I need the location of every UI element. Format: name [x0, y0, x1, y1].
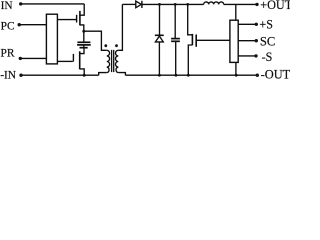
capacitor C2 plate 2: [171, 40, 180, 42]
wire B2 bottom stub: [235, 62, 237, 75]
transformer T1 core line 1: [111, 50, 113, 72]
node Q1b source junction: [83, 74, 86, 77]
capacitor C1 plate 3: [80, 47, 88, 49]
node -IN pin dot: [19, 74, 22, 77]
svg-text:PR: PR: [1, 47, 15, 60]
transformer T1 secondary winding: [116, 50, 119, 72]
node PC pin dot: [18, 23, 21, 26]
node junction D2 top: [158, 3, 161, 6]
transistor Q1 gate bar: [76, 15, 78, 23]
transformer T1 phase dot secondary: [115, 44, 118, 47]
transistor Q2 channel bar: [191, 34, 193, 45]
wire Q1b gate from control box: [57, 60, 72, 62]
transistor Q1b gate bar: [72, 54, 74, 62]
capacitor C1 stub: [83, 45, 85, 47]
svg-text:-IN: -IN: [0, 68, 16, 80]
node +OUT pin dot: [255, 3, 258, 6]
wire top rail inductor to +OUT: [224, 3, 257, 5]
node C2 bottom junction: [175, 74, 178, 77]
capacitor C2 top lead: [174, 4, 176, 38]
wire top rail D1 to inductor: [143, 3, 204, 5]
transistor Q2 drain wire: [188, 4, 193, 34]
wire transformer primary bottom corner: [99, 73, 107, 76]
capacitor C1 plate 2: [77, 44, 91, 46]
transistor Q2 source wire: [188, 45, 192, 75]
wire source to transformer primary top: [84, 31, 107, 50]
node B2 bottom junction: [235, 74, 238, 77]
wire Q1b source to -IN rail: [80, 69, 85, 75]
wire C1 bottom lead to Q1b drain: [80, 48, 84, 54]
diode D2 cathode bar: [155, 34, 164, 36]
diode D2 anode lead: [158, 42, 160, 75]
wire +S tap: [238, 23, 256, 25]
wire -S tap: [238, 55, 256, 57]
svg-text:-S: -S: [262, 50, 273, 64]
transistor Q1b channel bar: [79, 51, 81, 69]
wire SC tap: [238, 40, 256, 42]
wire IN rail top-left: [21, 3, 84, 5]
svg-text:+OUT: +OUT: [260, 0, 290, 12]
diode D1 triangle: [136, 1, 142, 8]
wire top rail to diode D1: [122, 3, 135, 5]
wire PC to box B1: [20, 24, 47, 26]
capacitor C2 bottom lead: [175, 42, 177, 75]
node PR pin dot: [19, 57, 22, 60]
node IN pin dot: [19, 2, 22, 5]
wire -OUT rail: [125, 74, 257, 76]
wire Q1 gate from control box: [57, 19, 76, 21]
wire Q1 source stub: [80, 25, 84, 31]
wire B2 top stub: [235, 4, 237, 20]
node SC pin dot: [255, 39, 258, 42]
svg-text:IN: IN: [1, 0, 14, 12]
transistor Q2 gate bar: [195, 35, 197, 47]
transformer T1 phase dot primary: [104, 44, 107, 47]
wire Q1 drain drop: [80, 4, 84, 15]
svg-text:-OUT: -OUT: [261, 67, 290, 80]
node Q2 source junction: [187, 74, 190, 77]
svg-text:+S: +S: [259, 17, 273, 31]
node D2 bottom junction: [158, 74, 161, 77]
control box B1: [46, 14, 57, 64]
capacitor C2 plate 1: [171, 38, 180, 40]
node +S pin dot: [255, 23, 258, 26]
diode D2 cathode lead: [159, 4, 161, 34]
transformer T1 core line 2: [113, 50, 115, 72]
capacitor C1 plate 1: [77, 41, 90, 43]
transformer T1 primary winding: [107, 50, 110, 72]
transistor Q1 channel bar: [79, 11, 81, 26]
wire -IN rail: [21, 74, 98, 76]
node Q1 source junction: [82, 30, 85, 33]
capacitor C1 top lead: [83, 31, 85, 41]
svg-text:PC: PC: [1, 19, 15, 32]
wire secondary bottom corner to -OUT rail: [118, 73, 125, 76]
node -OUT pin dot: [256, 74, 259, 77]
wire secondary top riser to diode rail: [118, 4, 122, 50]
node -S pin dot: [254, 54, 257, 57]
wire Q2 gate to box B2: [196, 39, 230, 41]
diode D2 triangle: [155, 36, 163, 42]
wire PR to box B1: [21, 57, 47, 59]
node junction Q2 top: [186, 3, 189, 6]
svg-text:SC: SC: [260, 34, 275, 48]
inductor L1: [204, 2, 224, 4]
node junction C2 top: [174, 3, 177, 6]
diode D1 cathode bar: [141, 1, 143, 8]
resistor box B2: [230, 20, 238, 62]
